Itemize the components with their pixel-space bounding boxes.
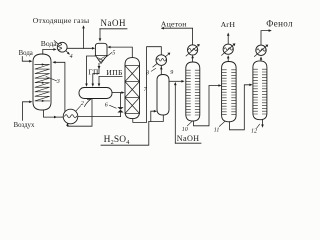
wire column 12 bottoms out <box>262 120 264 125</box>
svg-text:Вода: Вода <box>41 39 58 48</box>
wire scrubber 5 washed cumene to reactor <box>87 56 96 84</box>
svg-text:5: 5 <box>112 50 115 56</box>
node label 3 <box>46 77 57 81</box>
vessel 7 (horizontal reactor drum) <box>79 88 112 99</box>
wire AMS product <box>227 36 229 44</box>
svg-text:NaOH: NaOH <box>101 18 127 28</box>
wire column 11 bottoms to column 12 <box>230 85 250 130</box>
wire drum to column 7 with throttle branch <box>112 92 121 94</box>
wire cooler 2 outlet to valve 6 <box>78 116 121 118</box>
wire column 10 bottoms to column 11 <box>194 86 219 126</box>
svg-text:АгН: АгН <box>221 20 236 29</box>
column 12 (phenol column) <box>253 61 267 120</box>
svg-text:9: 9 <box>170 70 173 76</box>
svg-text:ГП: ГП <box>88 68 99 77</box>
wire acetone product <box>164 28 193 45</box>
svg-text:Ацетон: Ацетон <box>161 19 187 28</box>
wire off-gas riser <box>83 28 85 48</box>
svg-text:Фенол: Фенол <box>266 18 293 28</box>
op-amp condenser 4 (circle heat exchanger) <box>57 42 67 52</box>
transistor valve 6 (throttle) <box>117 107 123 110</box>
op-amp condenser 10 <box>188 45 198 55</box>
svg-text:Вода: Вода <box>19 50 33 57</box>
svg-text:11: 11 <box>214 127 220 133</box>
wire hydroperoxide from vessel 5 bottom <box>98 63 100 73</box>
node label 5 <box>104 53 112 59</box>
svg-text:6: 6 <box>105 103 108 109</box>
column 10 (acetone column) <box>186 62 200 121</box>
wire H2SO4 feed to circulation loop <box>101 122 149 146</box>
node label 2 <box>76 106 81 111</box>
vessel 9 (cleavage reactor) <box>157 75 169 116</box>
wire column 1 overhead to condenser 4 <box>43 49 53 54</box>
column 7 (vacuum concentration column, X packing) <box>125 58 140 119</box>
wire column 1 bottoms to cooler 2 <box>43 110 53 117</box>
vessel 5 (NaOH scrubber-separator) <box>95 43 107 55</box>
svg-text:NaOH: NaOH <box>177 134 200 143</box>
svg-text:Отходящие газы: Отходящие газы <box>33 16 90 25</box>
node label 7 (drum leader) <box>84 99 90 106</box>
wire water feed into column 1 <box>22 57 29 62</box>
svg-text:12: 12 <box>251 129 257 135</box>
wire condenser 4 to scrubber 5 <box>67 47 92 49</box>
op-amp cooler 2 (circle heat exchanger) <box>63 109 78 124</box>
coil 3 (cooling coils inside column 1) <box>35 65 50 101</box>
column 11 (AMS column) <box>222 62 237 122</box>
wire cumene feed line <box>99 76 122 83</box>
wire column 10 overhead to condenser 10 <box>192 58 194 62</box>
svg-text:4: 4 <box>70 53 73 60</box>
wire drum bottoms to cooler 2 <box>68 99 93 127</box>
wire column 12 overhead to condenser 12 <box>260 59 262 61</box>
wire cumene recycle into scrubber 5 (from column 7 overhead) <box>111 47 132 57</box>
wire air feed into column 1 <box>23 102 30 121</box>
wire NaOH into scrubber 5 <box>99 29 101 39</box>
wire reactor 9 vapor to cooler 8 <box>160 65 162 74</box>
svg-text:10: 10 <box>182 127 188 133</box>
svg-text:8: 8 <box>146 71 149 77</box>
wire phenol product <box>261 31 269 45</box>
wire column 11 overhead to condenser 11 <box>227 58 229 61</box>
svg-text:H2SO4: H2SO4 <box>104 135 130 146</box>
wire column 7 bottoms riser to cooler 8 <box>133 47 162 123</box>
wire hot return from cooler 2 to column 1 <box>56 62 65 111</box>
svg-text:3: 3 <box>56 79 60 85</box>
wire reactor 9 circulation loop <box>149 115 164 122</box>
wire reactor 9 product to column 10 <box>169 80 181 82</box>
svg-text:2: 2 <box>81 101 84 107</box>
op-amp condenser 12 <box>256 45 266 55</box>
svg-text:Воздух: Воздух <box>14 122 35 129</box>
svg-text:ИПБ: ИПБ <box>106 68 123 77</box>
op-amp condenser 11 <box>223 44 233 54</box>
op-amp cooler 8 (circle heat exchanger) <box>156 55 167 66</box>
column 1 (oxidation column) <box>33 54 51 110</box>
wire NaOH neutralizer riser <box>174 85 176 144</box>
